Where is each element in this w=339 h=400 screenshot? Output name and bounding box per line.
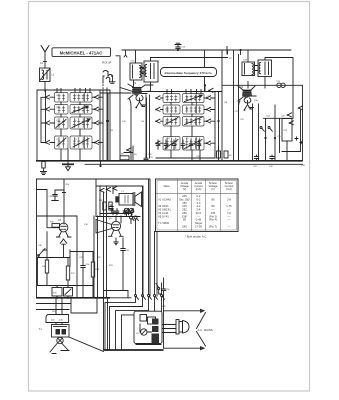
box bottom wire: [100, 213, 132, 215]
mains bus continuation: [110, 297, 131, 299]
mains feed wire top: [164, 309, 205, 312]
cathode wire V1: [130, 99, 132, 161]
section B inter-row drops: [171, 103, 200, 161]
svg-text:V5 UY41: V5 UY41: [158, 214, 169, 218]
capacitor C38: [109, 205, 113, 210]
fuse box: [64, 288, 73, 297]
grid resistor R15: [52, 224, 60, 228]
electrolytic + marks: [295, 137, 303, 144]
switch contact: [155, 96, 160, 100]
coupling between IFT1 boxes: [142, 69, 144, 74]
oscillator wire: [145, 95, 147, 158]
coil pack B row3 right: [183, 117, 205, 127]
bus stub component R9: [217, 146, 221, 158]
top HT wire: [122, 49, 291, 51]
switch contact: [289, 121, 294, 125]
mains lead legs: [50, 344, 69, 354]
section A inter-row drops: [61, 102, 80, 164]
svg-text:80: 80: [212, 198, 215, 202]
capacitor: [130, 209, 134, 215]
stub t3: [240, 50, 242, 55]
trimmer capacitor: [189, 140, 193, 149]
box dividers section A: [84, 93, 86, 149]
svg-text:V4 UL41: V4 UL41: [158, 211, 169, 215]
row link wires: [50, 122, 103, 124]
switch contact: [155, 141, 160, 145]
junction HT/A: [106, 120, 108, 122]
capacitor: [111, 209, 115, 215]
svg-text:4-2: 4-2: [197, 204, 201, 208]
coil pack A row1 right: [70, 93, 92, 103]
valve V4 UL41 (output): [96, 216, 123, 245]
decoupling capacitor C14 with ground: [175, 43, 181, 50]
svg-text:85: 85: [183, 218, 186, 222]
switch contact: [94, 95, 99, 99]
junction ht: [239, 49, 241, 51]
switch contact: [206, 119, 211, 123]
switch contact: [45, 107, 50, 111]
svg-text:6-2: 6-2: [197, 198, 201, 202]
T1 top leads: [56, 299, 62, 325]
switch contact: [208, 88, 213, 92]
svg-text:(Pin 7): (Pin 7): [209, 224, 217, 228]
grid wire V1: [100, 90, 131, 161]
smoothing unit outline: [134, 311, 162, 343]
bottom heater bus: [104, 349, 164, 351]
svg-text:McMICHAEL - 471AC: McMICHAEL - 471AC: [60, 50, 103, 55]
AF left rail: [36, 179, 38, 298]
coupling caps C26/C27: [52, 190, 64, 201]
earth run diagonal: [69, 337, 104, 352]
IF transformer IFT1 (secondary box): [140, 61, 158, 82]
heater tap contact: [142, 295, 146, 300]
top rail ticks B: [167, 90, 201, 94]
svg-text:* Both anode, A.C.: * Both anode, A.C.: [185, 235, 207, 239]
pick-up sockets: [103, 70, 115, 89]
section A top rail: [37, 90, 110, 161]
V3 feed wires: [47, 216, 60, 228]
dial lamp tap pair: [156, 284, 162, 295]
resistor R16: [45, 260, 48, 273]
C41 wire: [122, 238, 124, 291]
detector switch contacts: [260, 127, 264, 132]
trimmer arrows section A: [56, 106, 90, 147]
coil pack B row1 right: [183, 94, 205, 103]
title box: [52, 48, 111, 57]
svg-text:(V): (V): [183, 187, 187, 191]
switch contact: [287, 113, 292, 117]
antenna: [41, 46, 49, 69]
cluster inner wires: [140, 321, 152, 332]
aerial coil L1: [40, 68, 51, 82]
trimmer capacitor: [197, 140, 201, 149]
switch contact: [106, 187, 111, 191]
capacitor: [127, 209, 131, 215]
diode load wires: [264, 105, 294, 161]
contact stems: [100, 186, 113, 190]
svg-text:245: 245: [182, 224, 187, 228]
top rail ticks A: [57, 89, 90, 93]
bus resistor R6: [120, 156, 129, 160]
svg-text:V2 UF41: V2 UF41: [158, 204, 169, 208]
capacitor C32: [270, 155, 274, 160]
row link wires B: [161, 120, 216, 122]
svg-text:215: 215: [182, 204, 187, 208]
junction earth: [106, 349, 108, 351]
V2 anode wire: [247, 82, 249, 89]
section A right rails: [103, 88, 110, 161]
capacitor C41: [121, 247, 125, 253]
capacitor C31: [254, 155, 258, 160]
coil pack B row4 left: [163, 137, 180, 151]
V3 cathode drop: [63, 245, 65, 258]
row link wires: [50, 96, 103, 98]
svg-text:17-55: 17-55: [195, 224, 202, 228]
svg-text:Osc 150*: Osc 150*: [179, 198, 190, 202]
switch contact: [126, 148, 131, 152]
mains bus (thick): [36, 297, 110, 299]
valve V3 UBC41: [57, 223, 71, 244]
bus junction stub: [100, 161, 102, 166]
coil pack B row1 left: [163, 94, 180, 103]
coil pack B row2 left: [163, 105, 180, 114]
coil pack B row4 right: [183, 137, 205, 151]
junction mid: [107, 120, 109, 122]
svg-text:240v: 240v: [52, 311, 56, 313]
svg-text:2-8: 2-8: [227, 198, 231, 202]
bottom bus section B joins: [156, 157, 215, 159]
resistor R1: [42, 162, 45, 169]
bus stub component C26b: [224, 151, 228, 158]
switch contact: [206, 96, 211, 100]
box dividers section B: [196, 95, 198, 150]
svg-text:(V): (V): [211, 187, 215, 191]
wires IFT1: [136, 50, 151, 92]
coil pack A row2 left: [55, 105, 69, 115]
vc wires: [282, 110, 301, 161]
row link wires B: [161, 97, 216, 99]
coil pack A row4 left: [55, 136, 69, 149]
heater tap contact: [161, 295, 165, 300]
switch S2: [38, 249, 45, 257]
inner stair: [122, 315, 135, 350]
loudspeaker: [133, 192, 141, 207]
svg-text:7-0: 7-0: [227, 211, 231, 215]
switch contact: [94, 121, 99, 125]
smoothing resistor: [148, 317, 156, 324]
mains transformer T1: [52, 325, 70, 338]
verticals in output box: [100, 190, 113, 216]
section B left rails: [147, 95, 150, 158]
svg-text:(Pin 4): (Pin 4): [209, 218, 217, 222]
trimmer capacitor: [181, 140, 185, 149]
resistor R18: [91, 262, 94, 277]
electrolytic stack: [152, 319, 159, 325]
junction bus1: [56, 297, 58, 299]
coil pack A row1 left: [55, 93, 69, 103]
switch contact: [94, 140, 99, 144]
section B top rail: [140, 91, 222, 93]
bus cap C13: [144, 156, 148, 160]
switch contact: [45, 95, 50, 99]
svg-text:V1 UCH42: V1 UCH42: [158, 198, 171, 202]
valve voltage table: [156, 179, 239, 232]
staircase heater routing: [105, 299, 136, 349]
osc anode vertical: [204, 50, 206, 92]
svg-text:—: —: [228, 225, 231, 228]
ground chassis mid: [62, 164, 74, 171]
valve V2 UF41 (IF amplifier): [242, 90, 252, 99]
row link wires B: [161, 142, 216, 144]
cluster bottom wire: [136, 344, 161, 346]
mains voltage selector panel: [46, 315, 69, 323]
heater tap contact: [154, 295, 158, 300]
svg-text:(mA): (mA): [196, 187, 202, 191]
loop rectangle: [71, 298, 97, 313]
junction AF takeoff: [99, 165, 101, 167]
switch contact: [112, 186, 117, 190]
section A left rail: [41, 90, 46, 143]
heater tap contact: [148, 295, 152, 300]
row link wires: [50, 142, 103, 144]
section B right rails: [215, 50, 222, 161]
junction c14: [177, 49, 179, 51]
switch contact: [155, 107, 160, 111]
switch contact: [94, 107, 99, 111]
trimmer capacitor: [172, 140, 176, 149]
row link wires: [50, 108, 103, 110]
svg-text:V1: V1: [133, 81, 137, 85]
mains connector plug: [163, 320, 190, 335]
verticals to mains bus: [57, 286, 68, 298]
aux contacts: [130, 216, 139, 221]
grid feed vertical: [238, 55, 240, 161]
lower link wires: [38, 252, 94, 286]
vertical x77: [76, 216, 78, 298]
wires from AF box down to contacts: [143, 179, 162, 294]
V2 cathode wire: [239, 101, 241, 161]
switch contact: [206, 107, 211, 111]
svg-text:80: 80: [212, 204, 215, 208]
screen line: [222, 84, 303, 86]
IF transformer IFT1 (primary box): [130, 63, 142, 80]
padder wires: [124, 146, 133, 161]
svg-text:250: 250: [182, 211, 187, 215]
AF section top wire: [37, 179, 151, 296]
lines to selector: [37, 304, 72, 310]
trimmer capacitor: [156, 140, 160, 149]
dropper resistors row: [52, 288, 62, 297]
rectifier V5: [141, 329, 147, 335]
switch contact: [45, 121, 50, 125]
coil pack A row3 left: [55, 117, 69, 129]
junction det1: [264, 137, 266, 139]
output transformer T2: [115, 194, 133, 206]
heater tap contact: [135, 295, 139, 300]
pot wires: [127, 213, 136, 294]
svg-text:Valve: Valve: [163, 184, 170, 188]
svg-text:(mA): (mA): [226, 187, 232, 191]
row link wires B: [161, 109, 216, 111]
switch contact: [99, 188, 104, 192]
svg-text:32-0: 32-0: [196, 211, 202, 215]
chassis bus second line: [85, 163, 303, 165]
mains bracket: [197, 313, 206, 347]
capacitor: [123, 209, 127, 215]
mid vertical 3: [116, 56, 120, 161]
side vertical: [107, 298, 109, 350]
svg-text:245: 245: [211, 211, 216, 215]
capacitor C36: [81, 263, 85, 271]
resistor R21: [109, 202, 112, 210]
wire below table: [156, 232, 158, 297]
svg-text:—: —: [228, 219, 231, 222]
wire antenna to switch: [44, 82, 46, 92]
vertical feed 1: [233, 50, 235, 161]
IF transformer IFT2 secondary: [255, 60, 272, 77]
grid diagonal: [120, 88, 133, 92]
AF line 2: [37, 215, 78, 217]
volume control box R13: [282, 119, 292, 142]
coil pack A row4 right: [70, 136, 92, 149]
AVC wire: [151, 57, 228, 59]
mid vertical 2: [107, 93, 109, 161]
svg-text:V2: V2: [240, 85, 244, 89]
coil pack B row2 right: [183, 105, 205, 114]
resistor R17: [66, 266, 69, 280]
output coupling vertical: [302, 85, 304, 161]
svg-text:T.1 500Ω: T.1 500Ω: [158, 221, 169, 225]
coil pack A row2 right: [70, 105, 92, 115]
svg-text:PICK UP: PICK UP: [102, 63, 112, 65]
wires left: [37, 179, 66, 224]
screen wire: [227, 50, 229, 54]
svg-text:0-45: 0-45: [196, 218, 202, 222]
switch contact: [155, 119, 160, 123]
ground (aerial): [41, 169, 47, 175]
capacitor: [115, 209, 119, 215]
chassis bus (top section): [36, 160, 303, 162]
switch contact: [45, 140, 50, 144]
tone pot P1: [124, 208, 128, 212]
svg-text:Intermediate frequency 470 kc/: Intermediate frequency 470 kc/s.: [165, 71, 213, 75]
junction B: [217, 120, 219, 122]
switch contact: [298, 106, 303, 110]
mains feed wire bottom: [164, 347, 205, 350]
fuse/metal rectifier MR1: [277, 83, 285, 87]
tone components column: [38, 250, 71, 286]
coil pack B row3 left: [163, 117, 180, 127]
detector verticals: [253, 104, 259, 161]
stub t2: [226, 47, 228, 55]
junction det2: [274, 137, 276, 139]
smoothing choke: [140, 315, 147, 322]
vertical stubs to bus: [83, 286, 93, 298]
pilot lamp: [57, 337, 63, 343]
dial lamp cap C50: [161, 278, 165, 311]
IFT2 wires: [248, 50, 293, 118]
IF transformer IFT2 primary: [242, 62, 255, 76]
volume pot P2: [129, 208, 133, 212]
HT/heater verticals: [94, 214, 100, 298]
trimmer capacitor: [164, 140, 168, 149]
resistor R20: [103, 202, 106, 210]
valve V1 UCH42 (frequency changer): [132, 87, 142, 96]
svg-text:1-75: 1-75: [226, 204, 232, 208]
AF section second wire: [96, 186, 143, 296]
switch contact: [206, 141, 211, 145]
junction screen: [204, 84, 206, 86]
coil pack A row3 right: [70, 117, 92, 129]
stub: [124, 50, 127, 57]
svg-text:A.C. MAINS: A.C. MAINS: [198, 328, 213, 332]
IF frequency label: [161, 68, 217, 77]
junction bus2: [67, 297, 69, 299]
trimmer arrows section B: [165, 95, 202, 149]
sundry component labels: [52, 58, 306, 313]
output box left rail: [96, 179, 140, 217]
